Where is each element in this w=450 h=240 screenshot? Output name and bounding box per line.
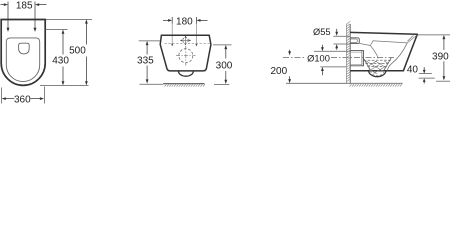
floor line side view <box>286 83 403 86</box>
dim 500 top extension line <box>46 18 92 20</box>
dim 300 top extension line <box>213 44 232 46</box>
Ø55 top extension line <box>333 35 350 37</box>
dim Ø100 text <box>307 54 330 64</box>
fixing hole centerline right <box>195 24 197 47</box>
dim 335 vertical line with arrows <box>146 41 149 84</box>
water supply crosshair <box>180 35 191 45</box>
dim 40 lower extension line <box>419 77 435 79</box>
WC side profile outline <box>350 32 417 70</box>
svg-text:430: 430 <box>52 56 69 67</box>
dim 335 text <box>137 55 154 66</box>
dim 185 line right segment with left arrow <box>35 3 47 6</box>
Ø100 down arrow <box>321 45 324 52</box>
svg-text:Ø55: Ø55 <box>313 27 331 37</box>
svg-text:335: 335 <box>137 55 154 66</box>
Ø100 top extension line <box>314 50 350 52</box>
dim 430 text <box>52 56 69 67</box>
flush channel line <box>359 43 370 45</box>
dim 390 top extension line <box>418 34 450 36</box>
trap dashed water lines <box>364 60 391 66</box>
svg-text:200: 200 <box>270 66 287 77</box>
dim 300 bottom extension line <box>214 84 229 86</box>
dim 500 vertical line with arrows <box>85 19 88 85</box>
svg-text:500: 500 <box>69 46 86 57</box>
floor line front view with hatch <box>163 84 205 87</box>
svg-text:390: 390 <box>432 51 449 62</box>
dim 185 text <box>16 1 33 12</box>
dim 360 left extension line <box>0 88 2 104</box>
WC front view outline <box>160 35 211 71</box>
dim 300 vertical line with arrows <box>224 45 227 84</box>
dim 390 vertical line with arrows <box>443 35 446 81</box>
Ø100 bottom extension line <box>320 66 346 68</box>
dim 430 top extension line <box>45 29 67 31</box>
dim 390 text <box>432 51 449 62</box>
wall hatched band <box>346 21 350 83</box>
Ø55 bottom extension line <box>334 43 351 45</box>
rim wedge <box>407 35 417 43</box>
dim 40 text <box>407 65 419 76</box>
dashed centerline through fixing holes <box>165 42 211 44</box>
pointer line left x8 with down arrow <box>7 2 10 32</box>
dim 40 up arrow below <box>423 78 426 83</box>
dim 390 bottom extension line <box>436 80 450 82</box>
dim 360 text <box>14 94 31 105</box>
seat inner ring <box>6 38 39 82</box>
svg-text:Ø100: Ø100 <box>307 54 330 64</box>
bowl opening <box>19 43 30 54</box>
svg-text:40: 40 <box>407 65 419 76</box>
trap cross hatch <box>360 57 398 90</box>
bowl interior front curve <box>388 43 408 70</box>
bottom extension line shared 430/500 <box>40 84 89 86</box>
Ø55 bottom up arrow <box>335 44 338 50</box>
trap cup sides <box>363 58 391 71</box>
dim 180 tick marks <box>172 17 196 24</box>
dim 300 text <box>216 60 233 71</box>
channel to trap line <box>370 46 378 59</box>
dim 40 down arrow <box>423 67 426 74</box>
svg-text:185: 185 <box>16 1 33 12</box>
flush hole dashed circle <box>176 46 196 66</box>
Ø100 up arrow <box>321 67 324 75</box>
dim 40 upper extension line <box>419 73 432 75</box>
drain pipe stub <box>350 51 363 66</box>
outlet bump inner dashed arc <box>371 71 384 76</box>
WC plan body outline <box>1 20 45 86</box>
dim 200 vertical line with bottom arrow <box>288 76 291 83</box>
svg-text:300: 300 <box>216 60 233 71</box>
dim 335 bottom extension line <box>140 83 164 85</box>
dim 360 line with outward arrows <box>2 97 45 100</box>
dim 500 text <box>69 46 86 57</box>
outlet bump side view <box>369 71 387 77</box>
dim 180 text <box>176 17 193 28</box>
dim 200 top down arrow <box>288 50 291 56</box>
dim 335 top extension line <box>139 40 161 42</box>
dim Ø55 down arrow <box>335 29 338 36</box>
pointer line right x35 with down arrow <box>34 2 37 32</box>
dim 185 line left segment with right arrow <box>1 3 9 6</box>
flush pipe stub <box>350 38 359 44</box>
drain centerline dash-dot <box>283 57 394 59</box>
dim 180 line left segment with right arrow <box>163 19 172 22</box>
svg-text:360: 360 <box>14 94 31 105</box>
dim 180 line right segment with left arrow <box>196 19 207 22</box>
fixing hole centerline left <box>171 24 173 47</box>
dim 200 text <box>270 66 287 77</box>
outlet bump front view <box>179 71 194 76</box>
dim 360 right extension line <box>44 87 46 104</box>
dim 430 vertical line with arrows <box>62 30 65 86</box>
rim inner line <box>370 41 407 46</box>
dim Ø55 text <box>313 27 331 37</box>
svg-text:180: 180 <box>176 17 193 28</box>
